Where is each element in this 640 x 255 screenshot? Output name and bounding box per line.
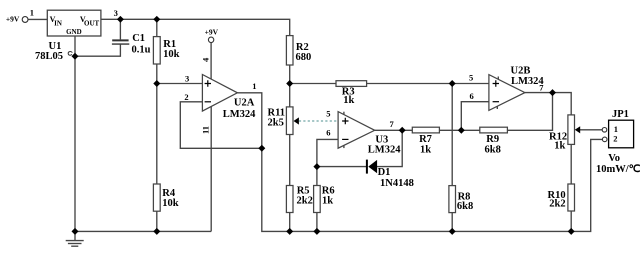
svg-text:+9V: +9V (6, 15, 20, 24)
svg-text:R9: R9 (486, 134, 499, 145)
svg-text:1: 1 (614, 124, 618, 134)
svg-text:1N4148: 1N4148 (380, 178, 414, 189)
svg-text:0.1u: 0.1u (132, 44, 151, 55)
svg-text:2k2: 2k2 (549, 199, 565, 210)
svg-text:11: 11 (200, 126, 210, 134)
svg-text:2: 2 (613, 133, 617, 143)
svg-text:1: 1 (30, 7, 34, 17)
svg-text:+9V: +9V (205, 27, 219, 36)
svg-text:1k: 1k (420, 145, 431, 156)
svg-text:6k8: 6k8 (485, 145, 501, 156)
svg-text:10k: 10k (163, 49, 180, 60)
svg-text:OUT: OUT (84, 20, 100, 28)
svg-text:1: 1 (252, 81, 256, 91)
svg-text:5: 5 (469, 73, 473, 83)
svg-text:R7: R7 (419, 134, 432, 145)
svg-text:2k5: 2k5 (268, 118, 284, 129)
svg-text:U2A: U2A (234, 97, 255, 108)
svg-text:IN: IN (54, 20, 62, 28)
svg-text:Vo: Vo (608, 153, 620, 164)
svg-text:1k: 1k (322, 195, 333, 206)
svg-text:2: 2 (184, 92, 188, 102)
svg-text:1k: 1k (343, 95, 354, 106)
svg-text:5: 5 (326, 109, 330, 119)
svg-text:6: 6 (470, 91, 474, 101)
svg-text:LM324: LM324 (368, 145, 401, 156)
svg-text:LM324: LM324 (511, 76, 544, 87)
svg-text:10mW/℃: 10mW/℃ (596, 163, 640, 175)
svg-text:GND: GND (66, 28, 82, 36)
svg-text:D1: D1 (378, 167, 391, 178)
svg-text:3: 3 (114, 8, 118, 18)
svg-text:7: 7 (390, 119, 395, 129)
svg-text:LM324: LM324 (223, 109, 256, 120)
svg-text:JP1: JP1 (612, 109, 629, 120)
svg-text:4: 4 (200, 57, 210, 62)
svg-text:6k8: 6k8 (457, 201, 473, 212)
svg-text:10k: 10k (162, 198, 179, 209)
svg-text:C1: C1 (132, 33, 145, 44)
svg-text:3: 3 (185, 74, 189, 84)
svg-text:1k: 1k (554, 141, 565, 152)
svg-text:78L05: 78L05 (35, 51, 63, 62)
svg-text:2k2: 2k2 (297, 195, 313, 206)
svg-text:U2B: U2B (511, 66, 531, 77)
svg-text:680: 680 (296, 52, 312, 63)
svg-text:6: 6 (326, 127, 330, 137)
